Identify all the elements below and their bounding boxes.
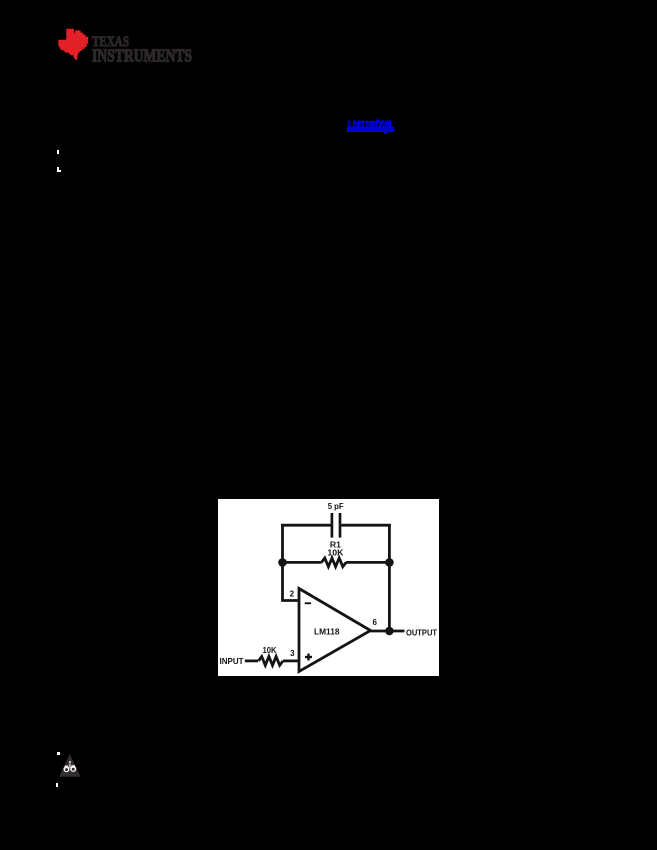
blue hyperlink blob: [346, 117, 398, 137]
wire: top feedback run (to capacitor): [281, 524, 391, 527]
wire: right feedback rail: [388, 524, 391, 631]
op-amp U1 triangle: [299, 589, 371, 672]
svg-text:OUTPUT: OUTPUT: [406, 627, 438, 637]
resistor 10K input zigzag: [259, 657, 283, 666]
wire: input lead: [245, 660, 258, 663]
legal-scales warning triangle: [55, 748, 87, 782]
capacitor C1 plates: [332, 513, 340, 538]
svg-text:6: 6: [372, 618, 377, 627]
small white glyph fragment 2: [57, 167, 59, 172]
svg-text:10K: 10K: [263, 646, 277, 655]
schematic figure (white panel): [218, 499, 439, 676]
small white comma fragment: [56, 783, 58, 787]
wire: left feedback rail: [281, 524, 284, 601]
svg-text:3: 3: [290, 649, 295, 658]
node: feedback right junction: [385, 558, 394, 567]
TI red Texas-map bug: [58, 29, 88, 60]
wire: pin 3 stub: [283, 660, 299, 663]
node: feedback left junction: [278, 558, 287, 567]
Texas Instruments logo: [50, 20, 200, 68]
svg-text:INSTRUMENTS: INSTRUMENTS: [92, 45, 192, 65]
wire: pin 2 stub: [281, 599, 299, 602]
svg-text:10K: 10K: [327, 548, 343, 557]
small white dot above triangle: [57, 752, 60, 755]
minus symbol (inverting input): [305, 602, 311, 604]
wire: middle feedback run: [283, 561, 390, 564]
svg-text:2: 2: [290, 590, 295, 599]
plus symbol (non-inverting input): [305, 656, 312, 658]
small white glyph fragment 1: [57, 150, 59, 154]
resistor R1 zigzag: [322, 558, 347, 567]
svg-text:5 pF: 5 pF: [328, 502, 344, 511]
wire: output lead: [370, 630, 405, 633]
svg-text:INPUT: INPUT: [220, 656, 245, 666]
node: output junction: [385, 627, 394, 636]
svg-text:LM118: LM118: [314, 627, 340, 636]
